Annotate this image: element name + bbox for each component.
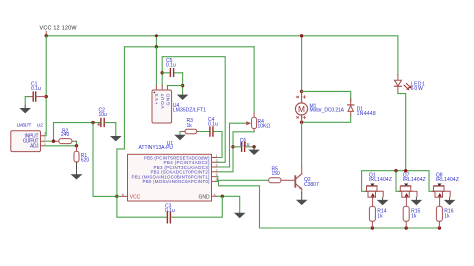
wire pin7 riser bbox=[217, 147, 234, 172]
wire LM35 +VS drop bbox=[155, 47, 157, 86]
svg-text:ATTINY13A-PU: ATTINY13A-PU bbox=[139, 145, 174, 151]
wire LED drop from rail1 bbox=[397, 36, 399, 75]
svg-text:C3807: C3807 bbox=[304, 182, 319, 188]
svg-text:10u: 10u bbox=[99, 112, 108, 118]
node LM35 gnd bbox=[181, 84, 184, 87]
transistor Q2 C3807 bbox=[295, 167, 319, 193]
wire C3 net bbox=[117, 196, 222, 217]
svg-text:1: 1 bbox=[216, 154, 218, 158]
wire R4 bottom to C6 node bbox=[233, 132, 254, 147]
node motor top bbox=[300, 90, 303, 93]
node R14 bottom bbox=[371, 226, 374, 229]
wire gate rail bbox=[362, 170, 429, 172]
wire Q8 gate loop bbox=[429, 171, 435, 192]
svg-text:620: 620 bbox=[81, 158, 90, 164]
node C5 tap bbox=[161, 71, 164, 74]
wire rail2 left riser to VCC node bbox=[117, 47, 125, 197]
wire Q7 gate loop bbox=[396, 171, 402, 192]
svg-text:2: 2 bbox=[44, 137, 46, 141]
wire LM317 output to R2 bbox=[44, 140, 55, 142]
svg-text:1k: 1k bbox=[187, 123, 193, 129]
svg-text:3: 3 bbox=[44, 132, 46, 136]
svg-text:2: 2 bbox=[216, 164, 218, 168]
wire LM317 adj bbox=[44, 145, 77, 147]
ground Q2 emitter bbox=[296, 193, 308, 205]
svg-text:60W: 60W bbox=[411, 86, 423, 92]
mosfet group Q1 bbox=[362, 171, 392, 228]
wire rail2 bbox=[124, 46, 254, 48]
motor M1 bbox=[295, 93, 344, 121]
IC U2 LM317 bbox=[11, 123, 46, 152]
svg-text:M: M bbox=[298, 104, 305, 114]
svg-text:Motor_DC0.21A: Motor_DC0.21A bbox=[310, 108, 345, 114]
node ADJ junction bbox=[75, 144, 78, 147]
svg-text:U2: U2 bbox=[37, 123, 43, 129]
svg-text:0.1u: 0.1u bbox=[31, 86, 41, 92]
wire LM35 GND pin bbox=[167, 85, 182, 87]
node A output pin bbox=[52, 140, 55, 143]
wire pin2 to R4 wiper bbox=[217, 123, 247, 167]
wire LM317 output riser bbox=[54, 123, 101, 142]
svg-text:GND: GND bbox=[165, 93, 170, 106]
wire motor/diode loop bottom bbox=[302, 115, 351, 122]
ground C6 bbox=[248, 147, 260, 155]
svg-text:4: 4 bbox=[214, 193, 216, 197]
svg-text:+VS: +VS bbox=[154, 94, 159, 105]
wire pin6 to R5 bbox=[217, 177, 269, 181]
transistor Q1 IRL1404Z bbox=[365, 172, 392, 206]
capacitor C6 bbox=[233, 138, 254, 151]
svg-text:IRL1404Z: IRL1404Z bbox=[403, 177, 426, 183]
node gate rail Q7 bbox=[394, 169, 397, 172]
svg-text:IRL1404Z: IRL1404Z bbox=[369, 177, 392, 183]
svg-text:ADJ: ADJ bbox=[30, 143, 39, 149]
resistor R2 bbox=[55, 129, 76, 144]
capacitor C5 bbox=[162, 58, 182, 76]
node junction top-left bbox=[45, 34, 48, 37]
node MCU VCC 4-way bbox=[115, 195, 118, 198]
wire pin1 riser to C4 bbox=[217, 132, 223, 158]
ground below C2 bbox=[110, 136, 122, 141]
transistor Q8 IRL1404Z bbox=[432, 172, 459, 206]
mosfet group Q8 bbox=[429, 171, 459, 228]
wire output net drop to MCU VCC bbox=[93, 123, 117, 197]
node C6 left bbox=[231, 145, 234, 148]
ground below C1 bbox=[19, 106, 31, 114]
resistor R3 bbox=[181, 118, 198, 134]
svg-text:240: 240 bbox=[61, 132, 70, 138]
node rail1 motor tap bbox=[300, 34, 303, 37]
wire C1 to ground bbox=[25, 97, 29, 106]
svg-text:VOUT: VOUT bbox=[160, 93, 165, 108]
svg-text:GND: GND bbox=[199, 194, 211, 200]
svg-text:VCC: VCC bbox=[130, 194, 141, 200]
wire pin8 vcc bbox=[117, 195, 121, 197]
capacitor C1 bbox=[29, 81, 46, 101]
node motor bottom bbox=[300, 121, 303, 124]
potentiometer R4 bbox=[252, 113, 271, 132]
wire Q1 gate loop bbox=[362, 171, 369, 192]
svg-text:LM317T: LM317T bbox=[17, 123, 32, 129]
node pin4 bbox=[221, 195, 224, 198]
wire rail1 12V top bbox=[46, 35, 398, 37]
ground below R1 bbox=[71, 162, 83, 180]
LED1 bbox=[394, 74, 425, 92]
svg-text:VCC 12 120W: VCC 12 120W bbox=[40, 26, 78, 32]
node R16 bottom bbox=[438, 226, 441, 229]
node C1 tap bbox=[45, 95, 48, 98]
svg-text:150: 150 bbox=[272, 171, 281, 177]
svg-text:1k: 1k bbox=[444, 213, 450, 219]
wire motor drop from rail1 bbox=[301, 36, 303, 92]
resistor R1 bbox=[74, 146, 89, 164]
ground MCU bbox=[234, 213, 246, 218]
svg-text:1k: 1k bbox=[377, 213, 383, 219]
svg-text:10KΩ: 10KΩ bbox=[258, 124, 271, 130]
wire R2 right down to ADJ node bbox=[76, 141, 78, 146]
node C6 right bbox=[252, 145, 255, 148]
R4 wiper arrowhead bbox=[246, 121, 251, 125]
resistor R15 bbox=[403, 206, 420, 228]
svg-text:0.1u: 0.1u bbox=[166, 63, 176, 69]
IC U1 ATTINY13A bbox=[121, 141, 217, 201]
IC U4 LM35 bbox=[152, 86, 206, 124]
node gate rail LED bbox=[404, 169, 407, 172]
wire rail1 tick to rail2 bbox=[155, 36, 157, 47]
wire VCC drop to LM317 input bbox=[44, 36, 46, 136]
resistor R14 bbox=[369, 206, 386, 228]
wire C2 right to ground bbox=[105, 123, 116, 136]
svg-text:3: 3 bbox=[216, 159, 218, 163]
capacitor C2 bbox=[97, 107, 107, 126]
wire LED to gate rail bbox=[398, 93, 406, 171]
svg-text:1k: 1k bbox=[411, 213, 417, 219]
ground LM35 bbox=[177, 95, 189, 100]
node R15 bottom bbox=[405, 226, 408, 229]
ground Q1 source bbox=[377, 197, 389, 205]
wire rail2 right riser to R4 bbox=[253, 47, 255, 113]
node B output net bbox=[91, 121, 94, 124]
mosfet group Q7 bbox=[396, 171, 426, 228]
transistor Q7 IRL1404Z bbox=[399, 172, 426, 206]
resistor R16 bbox=[436, 206, 453, 228]
VCC supply net label bbox=[40, 26, 78, 36]
node rail2 LM35 tap bbox=[155, 45, 158, 48]
svg-text:PB0 (MOSIAIN0OC0APCINT0): PB0 (MOSIAIN0OC0APCINT0) bbox=[143, 179, 211, 184]
ground Q8 source bbox=[444, 197, 456, 205]
svg-text:LM35DZ/LFT1: LM35DZ/LFT1 bbox=[173, 107, 206, 113]
svg-text:7: 7 bbox=[216, 168, 218, 172]
svg-text:1N4448: 1N4448 bbox=[357, 111, 376, 117]
wire pin5 to gate resistors rail bbox=[217, 181, 440, 228]
wire motor/diode loop top bbox=[302, 91, 351, 101]
ground Q7 source bbox=[411, 197, 423, 205]
svg-text:8: 8 bbox=[122, 193, 124, 197]
svg-text:IRL1404Z: IRL1404Z bbox=[436, 177, 459, 183]
wire pin4 gnd bbox=[217, 196, 240, 213]
capacitor C3 bbox=[165, 203, 175, 223]
wire motor bottom to Q2 collector bbox=[301, 122, 303, 166]
wire C5 right drop to gnd bbox=[182, 73, 184, 95]
capacitor C4 bbox=[197, 117, 222, 136]
wire R3 left to ground bbox=[180, 132, 181, 135]
wire LM35 VOUT riser loop to pin3 bbox=[162, 57, 225, 163]
diode D1 1N4448 bbox=[348, 99, 376, 118]
resistor R5 bbox=[269, 167, 295, 183]
ground R3 bbox=[174, 135, 186, 140]
